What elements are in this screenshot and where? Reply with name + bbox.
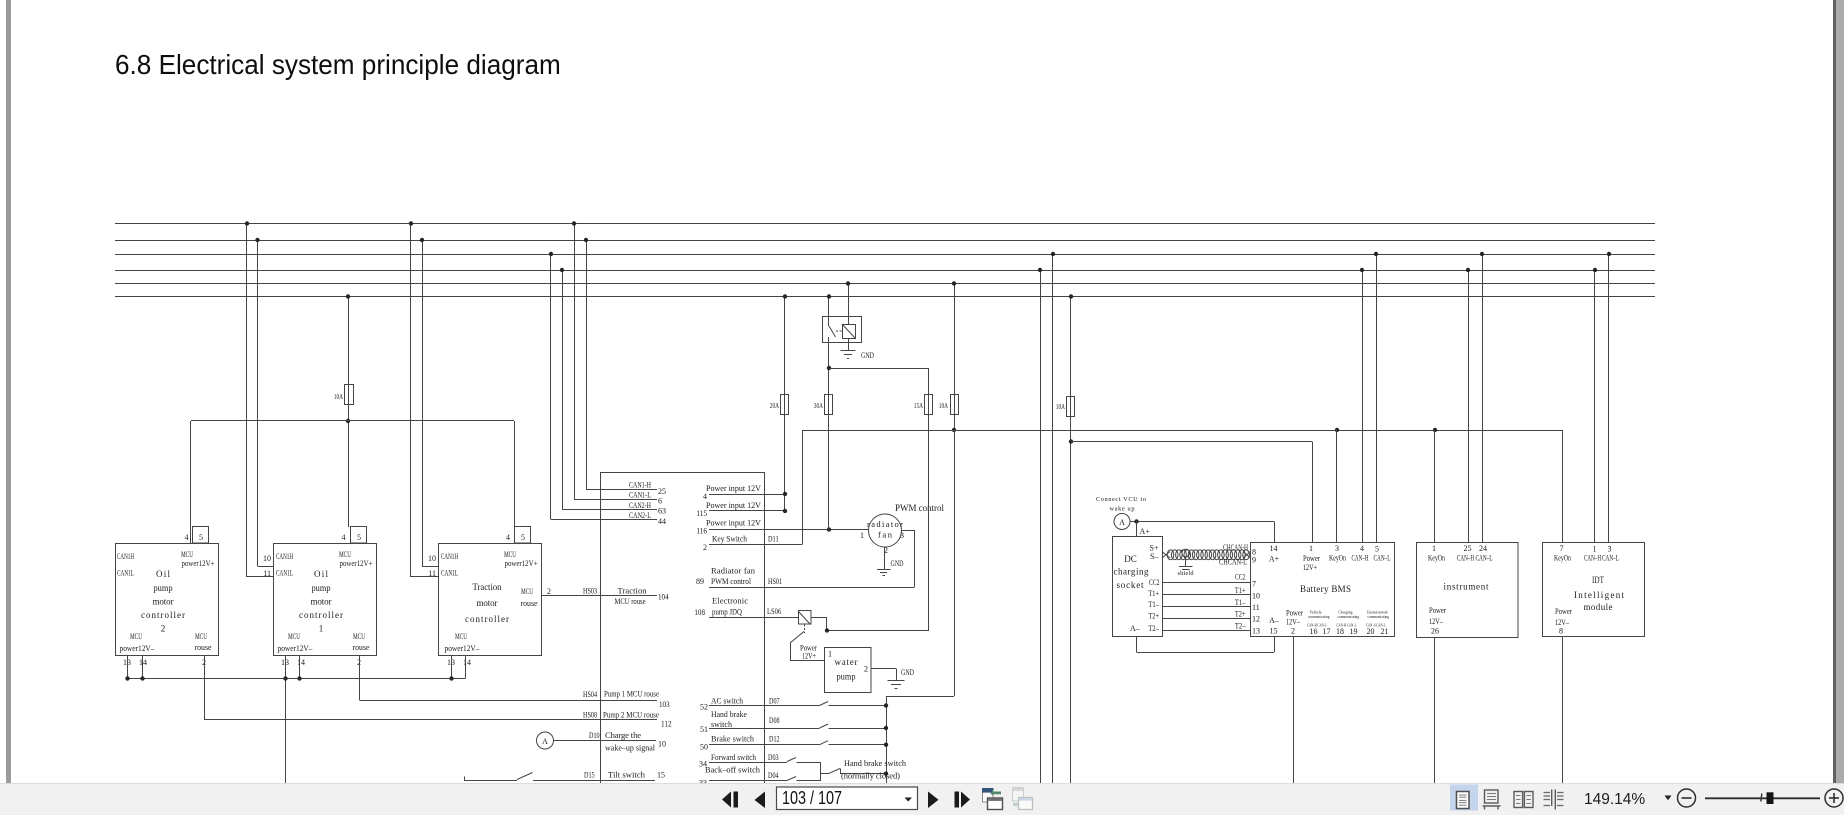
svg-text:1: 1 [828, 650, 832, 659]
svg-text:14: 14 [463, 658, 471, 667]
wire bus5 drop through fuse F5 [954, 284, 956, 431]
svg-text:D12: D12 [769, 734, 780, 743]
wire electronic pump JDQ LS06 [709, 617, 798, 619]
wire BMS power 12V+ [1071, 441, 1312, 443]
svg-text:MCU rouse: MCU rouse [615, 596, 646, 606]
svg-text:GND: GND [901, 667, 914, 677]
svg-text:Key Switch: Key Switch [712, 534, 748, 544]
svg-text:14: 14 [1270, 544, 1278, 553]
svg-text:power12V+: power12V+ [505, 558, 538, 568]
ground pump GND [888, 680, 905, 682]
wire CAN2-L drop to VCU pin 44 [550, 254, 552, 520]
wire CHCAN-H / CHCAN-L shielded pair [1162, 552, 1170, 559]
U2 pin5 tab [351, 527, 367, 544]
U1 pin labels 4 5 [185, 533, 204, 542]
svg-text:CAN1-H: CAN1-H [629, 480, 651, 490]
svg-text:D08: D08 [769, 716, 780, 725]
U2 left pin labels 10 11 [263, 554, 271, 578]
bus 12V supply B (line 5) [115, 283, 1655, 285]
svg-text:10A: 10A [1056, 403, 1065, 411]
svg-text:17: 17 [1323, 627, 1331, 636]
U1 texts [117, 549, 215, 667]
node K2 junction [825, 628, 829, 632]
wire drop to U1 pin 4 [190, 421, 192, 544]
svg-text:instrument: instrument [1444, 582, 1489, 592]
svg-text:T1–: T1– [1235, 598, 1246, 607]
wire A+ into socket [1136, 522, 1138, 538]
svg-text:4: 4 [342, 533, 346, 542]
wire instrument KeyOn [1434, 430, 1436, 542]
label HS03 row [547, 586, 669, 607]
node junction bus4/VCU [560, 268, 564, 272]
node junction bus6/F1 [346, 294, 350, 298]
svg-text:2: 2 [161, 624, 166, 634]
relay K1 contact [828, 297, 830, 327]
svg-text:controller: controller [299, 610, 343, 620]
node U3 pin13 [449, 676, 453, 680]
U1 pin13 wire [127, 656, 129, 679]
svg-text:CAN1H: CAN1H [441, 551, 458, 561]
bus 12V supply A (line 6) [115, 296, 1655, 298]
toolbar next-view button (disabled) [1013, 788, 1033, 810]
svg-text:5: 5 [357, 533, 361, 542]
svg-text:10: 10 [1252, 592, 1260, 601]
wire AC switch D07 [709, 705, 820, 707]
svg-text:power12V–: power12V– [278, 643, 314, 653]
svg-text:Traction: Traction [618, 586, 648, 596]
svg-text:1: 1 [1432, 544, 1436, 553]
svg-text:pump: pump [312, 583, 331, 593]
svg-text:11: 11 [1252, 603, 1260, 612]
svg-text:5: 5 [1375, 545, 1379, 554]
svg-text:HS03: HS03 [583, 587, 597, 596]
svg-text:2: 2 [703, 543, 707, 552]
wire bus5 to K1 coil [848, 284, 850, 325]
fuse F1 10A [345, 385, 354, 405]
wire power input 12V row2 [709, 510, 785, 512]
ground K1 GND [841, 350, 856, 352]
svg-text:12V–: 12V– [1286, 618, 1301, 627]
label CAN wires at VCU [629, 480, 666, 527]
svg-text:Connect VCU to: Connect VCU to [1096, 496, 1146, 503]
svg-text:D15: D15 [584, 771, 595, 780]
wire CAN2-H drop to VCU pin 63 [562, 270, 564, 510]
wire CAN2-H to IDT pin1 [1594, 270, 1596, 543]
svg-text:PWM control: PWM control [711, 576, 752, 586]
svg-text:D11: D11 [768, 535, 779, 544]
svg-text:Power: Power [1429, 606, 1446, 615]
svg-text:30A: 30A [814, 402, 823, 410]
controller U2 box (Oil pump motor controller 1) [274, 544, 377, 656]
wire CAN2-H drop long, to page bottom [1040, 270, 1042, 783]
svg-text:motor: motor [153, 597, 174, 607]
svg-text:power12V+: power12V+ [340, 558, 373, 568]
svg-text:radiator: radiator [867, 519, 903, 529]
svg-text:19: 19 [1350, 627, 1358, 636]
U3 pin13 wire [451, 656, 453, 679]
svg-text:Brake switch: Brake switch [711, 733, 755, 743]
svg-text:7: 7 [1560, 544, 1564, 553]
U1 pin14 wire [142, 656, 144, 679]
svg-text:15: 15 [1270, 627, 1278, 636]
svg-text:T1+: T1+ [1235, 586, 1246, 595]
U1 pin2 rouse wire [204, 656, 206, 720]
wire key switch D11 [709, 544, 802, 546]
svg-text:25: 25 [658, 487, 666, 496]
svg-text:PWM control: PWM control [895, 503, 944, 513]
svg-text:CAN–H: CAN–H [1584, 554, 1601, 563]
svg-text:12V+: 12V+ [1303, 563, 1317, 572]
svg-text:pump JDQ: pump JDQ [712, 607, 742, 617]
node junction bus1/VCU [572, 221, 576, 225]
svg-text:Tilt switch: Tilt switch [608, 770, 646, 780]
svg-text:T2–: T2– [1235, 622, 1246, 631]
svg-text:CAN–L: CAN–L [1374, 554, 1391, 563]
svg-text:1: 1 [1309, 544, 1313, 553]
svg-text:Pump 2 MCU rouse: Pump 2 MCU rouse [603, 710, 659, 720]
svg-text:103: 103 [659, 700, 670, 709]
svg-text:1: 1 [319, 624, 324, 634]
svg-text:10: 10 [658, 740, 666, 749]
svg-text:5: 5 [521, 533, 525, 542]
label D10 row [589, 730, 666, 753]
svg-text:KeyOn: KeyOn [1329, 554, 1346, 563]
svg-text:wake–up signal: wake–up signal [605, 743, 656, 753]
svg-text:14: 14 [297, 658, 305, 667]
shield tap to ground [1182, 549, 1190, 557]
node bus4/IDT [1593, 268, 1597, 272]
svg-text:AC switch: AC switch [711, 695, 744, 705]
svg-text:controller: controller [465, 614, 509, 624]
IDT module texts [1554, 544, 1624, 636]
wire radiator fan PWM control HS01 [709, 587, 914, 589]
wire connector A to BMS A+ [1130, 521, 1274, 523]
svg-text:CAN1H: CAN1H [117, 551, 134, 561]
ground fan GND [877, 569, 891, 571]
node junction bus1/U3 [409, 221, 413, 225]
svg-text:communicating: communicating [1308, 614, 1330, 619]
node BMS KeyOn tap [1335, 428, 1339, 432]
relay K1 coil [843, 325, 856, 339]
svg-text:24: 24 [1479, 544, 1487, 553]
fuse F4 15A [925, 395, 933, 415]
svg-text:D10: D10 [589, 731, 600, 740]
node power input row2 [783, 509, 787, 513]
node A junction [1134, 519, 1138, 523]
svg-text:T2+: T2+ [1148, 612, 1159, 621]
svg-text:wake up: wake up [1110, 506, 1135, 513]
svg-text:44: 44 [658, 517, 666, 526]
svg-text:CAN1L: CAN1L [276, 568, 293, 578]
node NC switch [884, 771, 888, 775]
svg-text:4: 4 [185, 533, 189, 542]
wire bus6 drop through fuse F1 [348, 297, 350, 528]
toolbar continuous layout button [1483, 790, 1501, 810]
node U2 pin14 [297, 676, 301, 680]
instrument box [1417, 543, 1519, 638]
controller U3 box (Traction motor controller) [439, 544, 542, 656]
wire forward/backoff join [820, 762, 822, 781]
svg-text:20A: 20A [770, 402, 779, 410]
svg-text:2: 2 [1291, 627, 1295, 636]
svg-text:LS06: LS06 [767, 607, 781, 616]
connector A (charge wake-up) [537, 732, 554, 749]
node junction bus6/F2 [783, 294, 787, 298]
svg-text:rouse: rouse [521, 598, 538, 608]
svg-text:module: module [1584, 602, 1613, 612]
wire drop to U3 pin 4 [514, 421, 516, 544]
svg-text:108: 108 [694, 608, 705, 617]
svg-text:Power input 12V: Power input 12V [706, 518, 762, 528]
label hand brake switch NC [841, 758, 907, 781]
svg-text:A–: A– [1269, 616, 1280, 625]
svg-text:12V–: 12V– [1429, 617, 1444, 626]
svg-text:Electronic: Electronic [712, 596, 748, 606]
svg-text:CAN1L: CAN1L [441, 568, 458, 578]
svg-text:pump: pump [837, 672, 856, 682]
svg-text:GND: GND [891, 558, 904, 568]
wire BMS KeyOn [1336, 430, 1338, 543]
svg-text:D07: D07 [769, 696, 780, 705]
wire CAN2-L to BMS pin5 [1376, 254, 1378, 543]
svg-text:switch: switch [711, 719, 733, 729]
svg-text:Power input 12V: Power input 12V [706, 500, 762, 510]
svg-text:water: water [835, 657, 858, 667]
wire K1 output to F4 [829, 368, 929, 370]
battery BMS tiny port labels [1307, 610, 1390, 637]
node junction bus3/VCU [549, 252, 553, 256]
svg-text:D04: D04 [768, 771, 779, 780]
svg-text:T2–: T2– [1148, 624, 1159, 633]
svg-text:15A: 15A [914, 402, 923, 410]
svg-text:1: 1 [1593, 545, 1597, 554]
U2 pin labels 4 5 [342, 533, 362, 542]
fuse F5 10A [951, 395, 959, 415]
svg-text:3: 3 [1608, 545, 1612, 554]
U1 pin5 tab [193, 527, 209, 544]
svg-text:18: 18 [1336, 627, 1344, 636]
svg-text:HS08: HS08 [583, 711, 597, 720]
svg-text:power12V–: power12V– [120, 643, 156, 653]
svg-text:13: 13 [1252, 627, 1260, 636]
svg-text:CC2: CC2 [1235, 573, 1246, 582]
svg-text:112: 112 [661, 720, 672, 729]
svg-text:Power: Power [1286, 609, 1303, 618]
node junction bus4 long drop [1038, 268, 1042, 272]
bus CAN2-H (line 4) [115, 270, 1655, 272]
toolbar zoom caret [1665, 796, 1672, 801]
svg-text:controller: controller [141, 610, 185, 620]
wire T1+ [1162, 594, 1251, 596]
IDT module box [1543, 543, 1645, 637]
node junction bus2/VCU [584, 238, 588, 242]
svg-text:10A: 10A [939, 402, 948, 410]
svg-text:Power: Power [1303, 554, 1320, 563]
svg-text:motor: motor [311, 597, 332, 607]
wire bus6 drop through fuse F2 [784, 297, 786, 512]
svg-text:Power input 12V: Power input 12V [706, 483, 762, 493]
toolbar facing continuous layout button [1544, 790, 1564, 810]
wire CAN1-L drop to VCU pin 6 [574, 224, 576, 500]
fuse F6 10A [1067, 397, 1075, 417]
VCU box (left edge / top edge / right edge) [600, 472, 602, 783]
wire HS04 pump1 rouse [360, 700, 658, 702]
wire CC2 [1162, 582, 1251, 584]
U2 texts [276, 549, 373, 667]
toolbar first-page button [722, 792, 731, 808]
svg-text:Charge the: Charge the [605, 730, 641, 740]
radiator fan M1 [869, 514, 902, 547]
node junction bus6/F6 [1069, 294, 1073, 298]
wire controller supply rail [191, 420, 514, 422]
node bus4/BMS [1360, 268, 1364, 272]
fuse F2 20A [781, 395, 789, 415]
svg-text:Forward switch: Forward switch [711, 752, 757, 762]
bus CAN1-L (line 1) [115, 223, 1655, 225]
svg-text:Traction: Traction [473, 582, 502, 592]
svg-text:rouse: rouse [195, 642, 212, 652]
svg-text:Oil: Oil [314, 569, 328, 579]
viewer status toolbar [0, 783, 1844, 815]
relay K1 link [836, 330, 842, 332]
svg-text:Pump 1 MCU rouse: Pump 1 MCU rouse [604, 689, 659, 699]
U2 pin2 rouse wire [359, 656, 361, 701]
svg-text:T1–: T1– [1148, 600, 1159, 609]
toolbar zoom slider handle [1767, 792, 1774, 804]
wire power input 12V row3, continues to fan pin1 [709, 529, 869, 531]
svg-text:16: 16 [1310, 627, 1318, 636]
tilt switch S5 [464, 777, 466, 781]
wire switch bus feed [954, 430, 956, 696]
svg-text:15: 15 [657, 771, 665, 780]
svg-text:4: 4 [1360, 544, 1364, 553]
bus CAN2-L (line 3) [115, 254, 1655, 256]
svg-text:D03: D03 [768, 753, 779, 762]
svg-text:MCU: MCU [521, 586, 533, 596]
wire power input 12V row1 [709, 494, 785, 496]
wire K2 to water pump [790, 643, 792, 661]
node junction bus5/F5 [952, 281, 956, 285]
svg-text:rouse: rouse [353, 642, 370, 652]
wire F4 to LS06 relay [928, 368, 930, 631]
toolbar zoom 100% tick [1761, 794, 1762, 802]
wire CAN2-L to instrument pin24 [1482, 254, 1484, 542]
svg-text:communicating: communicating [1338, 614, 1360, 619]
U3 pin labels 4 5 [506, 533, 525, 542]
U3 texts [441, 549, 538, 667]
DC charging socket box [1113, 537, 1163, 637]
wire CAN1-H drop to U3 pin 10 [422, 240, 424, 566]
svg-text:12: 12 [1252, 615, 1260, 624]
svg-text:CC2: CC2 [1149, 578, 1160, 587]
svg-text:(normally closed): (normally closed) [841, 771, 900, 781]
svg-text:CAN2-H: CAN2-H [629, 500, 651, 510]
wire HS08 pump2 rouse [204, 719, 657, 721]
svg-text:21: 21 [1381, 627, 1389, 636]
svg-text:A: A [1119, 518, 1125, 527]
label connect VCU [1096, 496, 1146, 513]
svg-text:CAN1-L: CAN1-L [629, 490, 651, 500]
svg-text:A+: A+ [1140, 527, 1151, 536]
wire T2+ [1162, 618, 1251, 620]
wire A- return [1136, 637, 1138, 652]
svg-text:KeyOn: KeyOn [1428, 554, 1445, 563]
node junction supply T [346, 419, 350, 423]
svg-text:charging: charging [1114, 567, 1150, 577]
wire CAN2-L to IDT pin3 [1608, 254, 1610, 543]
node key switch feed [952, 428, 956, 432]
svg-text:Radiator fan: Radiator fan [711, 566, 756, 576]
svg-text:2: 2 [547, 587, 551, 596]
svg-text:MCU: MCU [353, 631, 365, 641]
node junction bus5/K1 [846, 281, 850, 285]
wire MCU power return rail [128, 678, 466, 680]
svg-text:6: 6 [658, 497, 662, 506]
svg-text:51: 51 [700, 725, 708, 734]
hand brake switch S6 normally closed [820, 773, 829, 775]
battery BMS texts [1269, 544, 1391, 636]
svg-text:CAN1L: CAN1L [117, 568, 134, 578]
svg-text:Power: Power [1555, 607, 1572, 616]
wire hand brake switch D08 [709, 728, 820, 730]
node K1 output [827, 366, 831, 370]
wire CAN2-L drop long, to page bottom [1052, 254, 1054, 783]
toolbar zoom slider track [1705, 797, 1820, 799]
node bus3/BMS [1374, 252, 1378, 256]
U3 left pin labels 10 11 [428, 554, 436, 578]
svg-text:52: 52 [700, 703, 708, 712]
svg-text:9: 9 [1252, 556, 1256, 565]
svg-text:11: 11 [428, 569, 436, 578]
battery BMS box [1251, 543, 1395, 637]
svg-text:25: 25 [1464, 544, 1472, 553]
toolbar single page layout button (active) [1450, 785, 1478, 811]
svg-text:HS01: HS01 [768, 577, 782, 586]
wire fan pin2 to ground [884, 547, 886, 570]
node junction bus1/U2 [245, 221, 249, 225]
svg-text:DC: DC [1124, 554, 1137, 564]
node BMS power tap [1069, 439, 1073, 443]
node U1 pin13 [125, 676, 129, 680]
svg-text:IDT: IDT [1592, 575, 1604, 585]
wire T2- [1162, 630, 1251, 632]
node brake switch [884, 743, 888, 747]
svg-text:2: 2 [864, 665, 868, 674]
svg-text:motor: motor [477, 598, 498, 608]
svg-text:S–: S– [1150, 552, 1159, 561]
left page edge bar [6, 0, 11, 783]
U3 pin14 wire [465, 656, 467, 679]
relay K1 box [823, 317, 862, 343]
U2 pin14 wire [299, 656, 301, 679]
label D15 row [584, 770, 665, 780]
toolbar last-page button [955, 792, 960, 808]
svg-text:CAN–L: CAN–L [1602, 554, 1619, 563]
svg-text:8: 8 [1559, 627, 1563, 636]
wire bus6 drop through fuse F6, continues to page bottom [1070, 297, 1072, 784]
svg-text:CAN–H: CAN–H [1352, 554, 1369, 563]
svg-text:Battery BMS: Battery BMS [1300, 584, 1351, 594]
instrument texts [1428, 544, 1493, 636]
wire K2 coil to junction [811, 617, 828, 619]
wire D10 charge wake-up [554, 740, 657, 742]
svg-text:pump: pump [154, 583, 173, 593]
svg-text:26: 26 [1431, 627, 1439, 636]
svg-text:104: 104 [658, 593, 669, 602]
node junction bus6/K1 [827, 294, 831, 298]
wire CAN2-H to BMS pin4 [1362, 270, 1364, 543]
node bus3/IDT [1607, 252, 1611, 256]
